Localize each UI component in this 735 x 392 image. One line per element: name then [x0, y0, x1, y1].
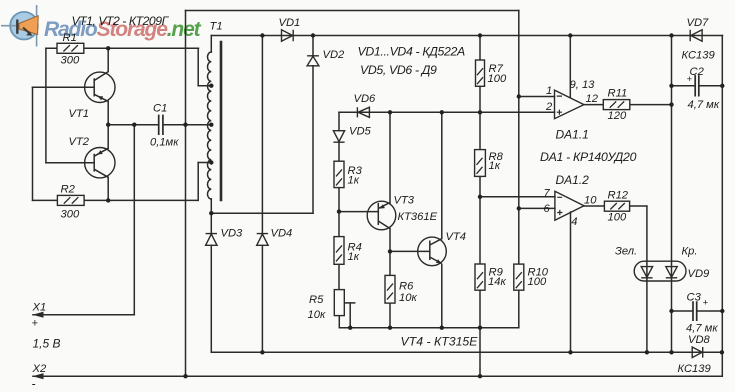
svg-text:6: 6: [544, 203, 551, 215]
svg-text:DA1.2: DA1.2: [556, 173, 590, 187]
svg-text:R2: R2: [61, 183, 76, 195]
svg-text:VD8: VD8: [688, 334, 711, 346]
svg-text:T1: T1: [210, 21, 223, 33]
svg-text:VD4: VD4: [271, 228, 293, 240]
svg-text:Кр.: Кр.: [682, 245, 698, 257]
svg-text:4,7 мк: 4,7 мк: [686, 323, 718, 335]
svg-text:1к: 1к: [348, 251, 360, 263]
svg-text:12: 12: [586, 93, 599, 105]
svg-text:VD1...VD4 - КД522А: VD1...VD4 - КД522А: [358, 44, 465, 58]
svg-text:7: 7: [544, 187, 551, 199]
svg-text:VD3: VD3: [221, 228, 244, 240]
svg-text:VD5, VD6 - Д9: VD5, VD6 - Д9: [360, 63, 437, 77]
svg-text:300: 300: [61, 209, 80, 221]
svg-text:VD1: VD1: [279, 17, 301, 29]
svg-text:+: +: [32, 318, 39, 330]
svg-text:VD9: VD9: [688, 268, 710, 280]
svg-text:X2: X2: [32, 363, 47, 375]
svg-text:VT4: VT4: [446, 231, 467, 243]
svg-text:VD7: VD7: [687, 17, 710, 29]
svg-text:КС139: КС139: [682, 49, 715, 61]
svg-text:C1: C1: [153, 103, 167, 115]
svg-text:100: 100: [488, 73, 507, 85]
svg-text:0,1мк: 0,1мк: [150, 136, 179, 148]
svg-text:VT1, VT2 - КТ209Г: VT1, VT2 - КТ209Г: [72, 14, 170, 28]
svg-text:9, 13: 9, 13: [570, 79, 596, 91]
svg-text:R12: R12: [608, 190, 629, 202]
svg-text:VD5: VD5: [349, 126, 372, 138]
svg-text:100: 100: [528, 276, 547, 288]
svg-text:4,7 мк: 4,7 мк: [688, 99, 720, 111]
svg-text:2: 2: [545, 101, 553, 113]
svg-text:1к: 1к: [348, 174, 360, 186]
svg-text:100: 100: [608, 212, 627, 224]
svg-text:VT4 - КТ315Е: VT4 - КТ315Е: [401, 335, 479, 349]
svg-text:VT1: VT1: [69, 108, 90, 120]
svg-text:R1: R1: [63, 32, 77, 44]
svg-text:DA1 - КР140УД20: DA1 - КР140УД20: [540, 150, 637, 164]
svg-text:VT2: VT2: [69, 136, 90, 148]
svg-text:Зел.: Зел.: [615, 245, 637, 257]
svg-text:1: 1: [546, 85, 552, 97]
svg-text:4: 4: [571, 216, 577, 228]
svg-text:R11: R11: [608, 88, 628, 100]
svg-text:VD6: VD6: [354, 93, 377, 105]
svg-text:КС139: КС139: [678, 363, 711, 375]
svg-text:10к: 10к: [399, 292, 417, 304]
svg-text:14к: 14к: [488, 276, 506, 288]
svg-text:10: 10: [584, 195, 597, 207]
svg-text:X1: X1: [32, 301, 47, 313]
svg-text:1к: 1к: [489, 160, 501, 172]
svg-text:VD2: VD2: [323, 49, 346, 61]
svg-text:300: 300: [61, 55, 80, 67]
svg-text:-: -: [32, 377, 36, 391]
svg-text:R5: R5: [309, 294, 324, 306]
svg-text:+: +: [687, 74, 693, 85]
svg-text:120: 120: [608, 110, 627, 122]
svg-text:R6: R6: [399, 281, 414, 293]
svg-text:КТ361Е: КТ361Е: [398, 211, 438, 223]
svg-text:10к: 10к: [308, 309, 326, 321]
svg-text:1,5 В: 1,5 В: [33, 337, 61, 351]
svg-text:+: +: [703, 298, 709, 309]
svg-text:C3: C3: [687, 292, 702, 304]
svg-text:VT3: VT3: [394, 194, 415, 206]
svg-text:DA1.1: DA1.1: [556, 127, 589, 141]
